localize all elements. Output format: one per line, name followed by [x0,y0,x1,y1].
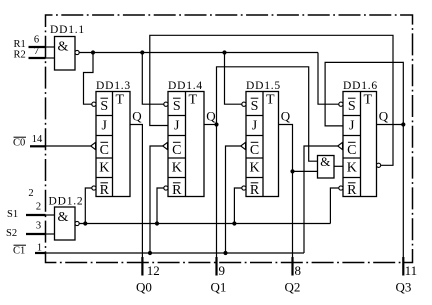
IC boundary frame DD1 (dash-dot) [46,15,413,263]
JK flip-flop DD1.5 [241,92,279,198]
pin 8 [295,263,302,278]
svg-text:Q: Q [132,108,142,123]
junction on DD1.2 bus at DD1.3 [83,221,87,225]
input C1 label (with overline) [13,245,26,256]
wire: DD1.3 Q output to Q0 terminal [130,125,142,258]
svg-text:DD1.6: DD1.6 [343,80,378,92]
svg-text:7: 7 [34,46,39,57]
wire: Q1 vertical to terminal [216,125,218,258]
wire: branch to R of DD1.4 [157,188,164,224]
NAND gate DD1.2 [55,207,80,240]
wire S2 input stub [26,233,55,235]
label Q output of DD1.5 [281,108,291,123]
JK flip-flop DD1.6 [338,92,377,198]
svg-text:&: & [320,154,330,169]
wire: DD1.5 Q output to Q2 terminal [279,125,293,258]
svg-text:T: T [266,92,275,107]
designator DD1.5 [246,80,281,92]
pin 11 [405,263,418,278]
terminal Q1 tick [215,257,217,276]
JK flip-flop DD1.4 [163,92,204,198]
pin 6 [34,35,39,46]
svg-text:J: J [349,118,355,133]
svg-text:Q: Q [206,108,216,123]
wire: DD1.2 output bus to R inputs [79,223,330,225]
JK flip-flop DD1.3 [91,92,130,198]
wire: DD1.1 output bus to S inputs [79,52,318,54]
pin 12 [147,263,160,278]
input R1 label [14,39,26,50]
svg-text:Q1: Q1 [211,279,227,294]
svg-text:K: K [99,161,109,176]
pin 2 (upper stray label) [28,188,33,199]
svg-text:J: J [102,118,108,133]
svg-text:C0: C0 [13,137,25,148]
junction on DD1.1 bus at DD1.4 [140,50,144,54]
input C0 label (with overline) [13,137,26,148]
svg-text:K: K [249,161,259,176]
svg-text:K: K [172,161,182,176]
label Q output of DD1.3 [132,108,142,123]
designator DD1.6 [343,80,378,92]
wire: branch to S of DD1.3 [84,53,94,105]
pin 3 [36,221,41,232]
svg-text:Q: Q [281,108,291,123]
svg-text:DD1.5: DD1.5 [246,80,281,92]
svg-text:11: 11 [405,263,418,278]
wire: gate output to K of DD1.6 [334,165,343,167]
svg-text:K: K [347,161,357,176]
wire: gate input 2 [293,170,318,172]
svg-text:R: R [347,183,357,198]
svg-text:R1: R1 [14,39,26,50]
wire: DD1.6 Q feedback to J of DD1.6 (line at y62) [325,62,403,126]
svg-text:&: & [58,210,69,225]
AND gate (QB*QC) inside DD1 [318,154,335,178]
svg-text:S: S [173,99,181,114]
svg-text:R: R [250,183,260,198]
junction on C1 bus at DD1.4 [148,251,152,255]
svg-text:6: 6 [34,35,39,46]
wire: branch to S of DD1.5 [225,53,242,105]
terminal Q3 tick [402,257,404,276]
svg-text:2: 2 [28,188,33,199]
wire: C1 bus end to C of DD1.6 [304,146,338,253]
node label Q3 [396,279,412,294]
node label Q1 [211,279,227,294]
node label Q0 [136,279,152,294]
designator DD1.4 [168,80,203,92]
wire: branch to R of DD1.5 [234,188,241,224]
svg-text:Q: Q [379,108,389,123]
wire R1 input stub [29,46,55,48]
junction on DD1.2 bus at DD1.5 [232,221,236,225]
svg-text:C: C [347,143,356,158]
wire: C1 clock bus [46,252,305,254]
svg-text:R: R [100,183,110,198]
designator DD1.3 [96,80,131,92]
pin 2 [36,202,41,213]
wire: DD1.1 bus end to S of DD1.6 [318,53,339,105]
svg-text:14: 14 [32,134,43,145]
svg-text:C1: C1 [13,245,25,256]
designator DD1.2 [49,195,84,207]
svg-text:T: T [116,92,125,107]
svg-text:Q3: Q3 [396,279,412,294]
wire: DD1.4 Q output [204,124,217,126]
pin 9 [219,263,226,278]
inverted output bubble of DD1.6 [377,163,381,167]
svg-text:S: S [251,99,259,114]
svg-text:9: 9 [219,263,226,278]
svg-text:2: 2 [36,202,41,213]
wire: DD1.6 inverted output feedback to J of DD1.4 (top line) [150,35,393,165]
label Q output of DD1.4 [206,108,216,123]
junction DD1.5 Q to gate input 2 [290,169,294,173]
junction on C1 bus at DD1.5 [223,251,227,255]
svg-text:DD1.4: DD1.4 [168,80,203,92]
svg-text:DD1.3: DD1.3 [96,80,131,92]
svg-text:C: C [172,143,181,158]
pin 7 [34,46,39,57]
terminal Q0 tick [141,257,143,276]
svg-text:T: T [364,92,373,107]
svg-text:S2: S2 [6,228,17,239]
wire S1 input stub [26,214,55,216]
svg-text:C: C [250,143,259,158]
wire: branch to S of DD1.4 [142,53,164,105]
input S2 label [6,228,17,239]
node label Q2 [285,279,301,294]
svg-text:&: & [58,40,69,55]
svg-text:Q0: Q0 [136,279,152,294]
svg-text:R: R [172,183,182,198]
svg-text:J: J [252,118,258,133]
input S1 label [7,209,18,220]
junction on DD1.1 bus at DD1.3 [91,50,95,54]
wire C1 input stub [35,252,46,254]
svg-text:Q2: Q2 [285,279,301,294]
terminal Q2 tick [291,257,293,276]
wire C0 input to DD1.3 clock [30,145,91,148]
junction DD1.4 Q / Q1 line [214,122,218,126]
junction on DD1.1 bus at DD1.5 [222,50,226,54]
junction DD1.6 Q / Q3 line [401,122,405,126]
svg-text:1: 1 [37,243,42,254]
pin 14 [32,134,43,145]
wire: DD1.6 Q output [377,124,404,126]
wire: DD1.4 Q to gate input 1 (line at y67) [217,67,318,161]
svg-text:R2: R2 [14,50,26,61]
svg-text:T: T [189,92,198,107]
wire: branch to R of DD1.3 [85,188,92,224]
wire: branch to C of DD1.4 [150,146,163,253]
svg-text:12: 12 [147,263,160,278]
wire: Q3 vertical to terminal [402,125,404,258]
svg-text:C: C [100,143,109,158]
svg-text:S: S [100,99,108,114]
wire R2 input stub [29,57,55,59]
svg-text:S: S [348,99,356,114]
designator DD1.1 [50,24,85,36]
label Q output of DD1.6 [379,108,389,123]
NAND gate DD1.1 [55,37,80,71]
svg-text:3: 3 [36,221,41,232]
svg-text:DD1.1: DD1.1 [50,24,85,36]
input R2 label [14,50,26,61]
svg-text:8: 8 [295,263,302,278]
svg-text:J: J [174,118,180,133]
wire: branch to C of DD1.5 [226,146,241,253]
wire: DD1.2 bus end to R of DD1.6 [330,188,338,224]
junction on DD1.2 bus at DD1.4 [155,221,159,225]
svg-text:DD1.2: DD1.2 [49,195,84,207]
pin 1 [37,243,42,254]
svg-text:S1: S1 [7,209,18,220]
